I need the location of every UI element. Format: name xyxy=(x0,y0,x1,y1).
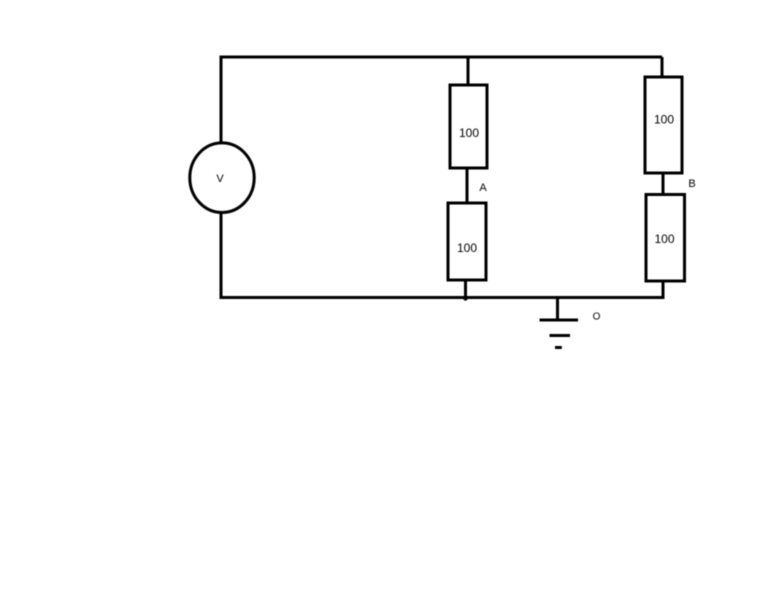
svg-text:A: A xyxy=(479,182,487,194)
ground bar 3 xyxy=(555,346,562,349)
svg-text:B: B xyxy=(688,178,695,190)
wire right branch bottom stub xyxy=(662,281,665,299)
resistor R1 middle, value 100 xyxy=(450,85,487,168)
wire top horizontal xyxy=(221,56,662,59)
resistor R2 middle, value 100 xyxy=(448,203,486,280)
junction dot middle branch / bottom wire xyxy=(463,296,467,300)
voltage source V1 xyxy=(190,143,254,213)
svg-text:100: 100 xyxy=(457,241,477,255)
wire right branch top stub xyxy=(661,57,664,77)
svg-text:100: 100 xyxy=(459,126,479,140)
svg-text:O: O xyxy=(593,312,601,323)
wire middle branch top stub xyxy=(467,57,470,85)
ground stem xyxy=(556,298,559,321)
svg-text:V: V xyxy=(216,173,224,185)
wire node B between right resistors xyxy=(662,173,665,195)
resistor R3 right, value 100 xyxy=(645,77,682,173)
resistor R4 right, value 100 xyxy=(646,195,685,282)
svg-text:100: 100 xyxy=(654,113,674,127)
wire left vertical lower xyxy=(220,212,223,298)
wire bottom horizontal xyxy=(220,296,664,299)
ground bar 1 xyxy=(540,319,579,322)
wire middle branch bottom stub xyxy=(464,280,467,298)
svg-text:100: 100 xyxy=(654,232,674,246)
wire node A between middle resistors xyxy=(466,168,469,203)
ground bar 2 xyxy=(550,334,571,337)
wire left vertical upper xyxy=(220,56,223,145)
